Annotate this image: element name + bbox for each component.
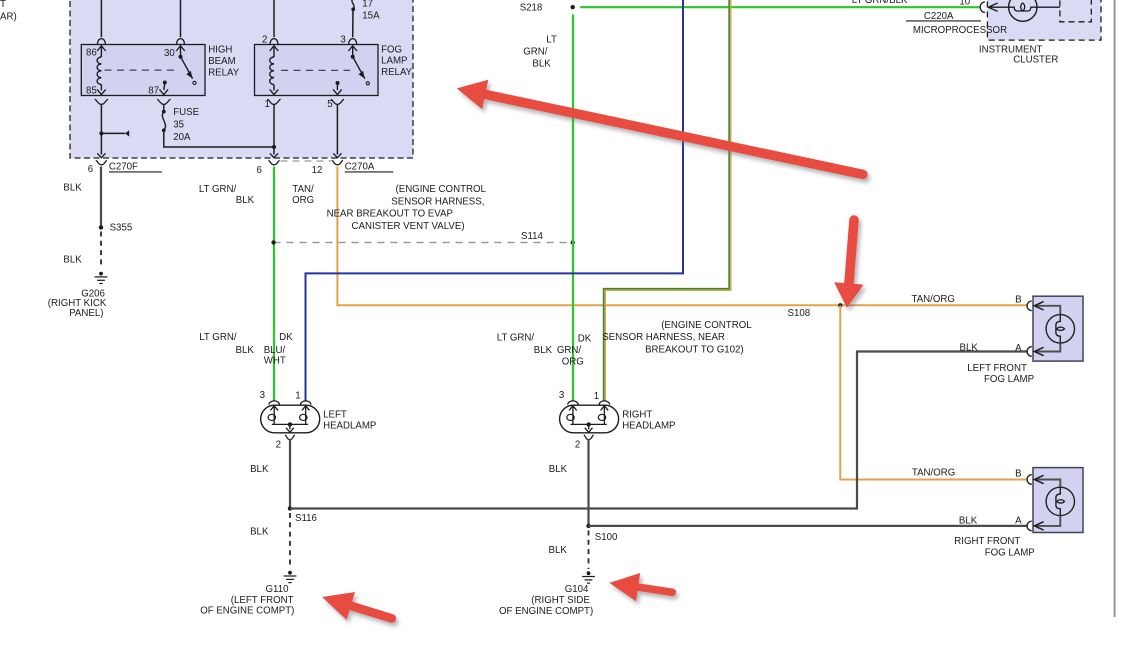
wire to relay pin 86 [100, 0, 102, 37]
svg-text:FUSE: FUSE [173, 107, 199, 118]
svg-text:OF ENGINE COMPT): OF ENGINE COMPT) [499, 606, 593, 617]
fuse 35 20A [157, 99, 170, 104]
svg-text:12: 12 [312, 165, 323, 176]
svg-text:GRN/: GRN/ [523, 47, 548, 58]
TAN/ORG wire S108 to right fog lamp [840, 305, 1028, 479]
svg-text:BLK: BLK [959, 515, 978, 526]
svg-text:BLK: BLK [960, 342, 979, 353]
svg-text:35: 35 [173, 120, 184, 131]
svg-text:S114: S114 [521, 231, 544, 242]
svg-text:BLK: BLK [236, 345, 255, 356]
annotation arrow to G110 [322, 592, 392, 620]
svg-text:B: B [1015, 468, 1021, 479]
annotation arrow to S108 [834, 220, 863, 308]
svg-text:S355: S355 [110, 223, 133, 234]
right front fog lamp [1033, 468, 1083, 533]
fog lamp relay box [255, 45, 379, 96]
svg-text:BEAM: BEAM [208, 56, 235, 67]
svg-text:C270F: C270F [109, 161, 138, 172]
svg-text:ORG: ORG [562, 356, 584, 367]
svg-text:BREAKOUT TO G102): BREAKOUT TO G102) [645, 345, 744, 356]
svg-text:LT GRN/: LT GRN/ [199, 184, 237, 195]
svg-text:BLK: BLK [532, 58, 551, 69]
svg-text:MICROPROCESSOR: MICROPROCESSOR [913, 25, 1007, 36]
BLK wire C270F to S355 to G206 [100, 167, 102, 228]
svg-text:BLK: BLK [549, 545, 568, 556]
svg-text:6: 6 [88, 164, 93, 175]
DK GRN/ORG wire to right headlamp pin 1 [604, 0, 730, 401]
svg-text:DK: DK [279, 332, 293, 343]
svg-text:30: 30 [164, 48, 175, 59]
svg-text:A: A [1015, 516, 1022, 527]
left headlamp symbol [261, 405, 320, 433]
svg-text:RIGHT FRONT: RIGHT FRONT [954, 536, 1020, 547]
svg-text:PANEL): PANEL) [69, 308, 103, 319]
svg-text:LT GRN/: LT GRN/ [497, 333, 535, 344]
junction with stub arrow [99, 131, 103, 135]
svg-text:BLK: BLK [63, 255, 82, 266]
annotation arrow to G104 [609, 573, 672, 601]
ground G110 [288, 571, 292, 575]
LT GRN/BLK wire C270A-6 to S114 to left headlamp pin 3 [273, 167, 275, 401]
svg-text:BLK: BLK [236, 195, 255, 206]
svg-text:BLU/: BLU/ [264, 345, 286, 356]
left front fog lamp [1033, 296, 1083, 361]
wire fuse 35 to fog relay pin 1 wire [164, 130, 274, 147]
splice S114 dashed link [274, 242, 573, 244]
svg-text:BLK: BLK [250, 526, 269, 537]
svg-text:(ENGINE CONTROL: (ENGINE CONTROL [661, 320, 752, 331]
fog relay pin 5 wire [331, 99, 344, 104]
DK BLU/WHT wire to left headlamp pin 1 [306, 0, 684, 401]
svg-text:2: 2 [276, 439, 281, 450]
svg-text:NEAR BREAKOUT TO EVAP: NEAR BREAKOUT TO EVAP [327, 209, 453, 220]
svg-text:BLK: BLK [63, 182, 82, 193]
wire to relay pin 2 [273, 0, 275, 37]
svg-text:2: 2 [262, 35, 267, 46]
svg-text:AR): AR) [0, 11, 17, 22]
relay mechanical link [105, 69, 179, 71]
svg-text:(ENGINE CONTROL: (ENGINE CONTROL [396, 184, 487, 195]
svg-text:1: 1 [295, 391, 300, 402]
connector C270A [268, 160, 279, 164]
svg-text:10: 10 [959, 0, 970, 7]
svg-text:20A: 20A [173, 132, 191, 143]
svg-text:GRN/: GRN/ [557, 345, 582, 356]
svg-text:CLUSTER: CLUSTER [1013, 54, 1058, 65]
svg-text:85: 85 [86, 86, 97, 97]
relay pin 85 wire to C270F [95, 99, 108, 104]
high beam relay box [81, 45, 205, 96]
LT GRN/BLK wire S218 to instrument cluster [580, 6, 981, 8]
svg-text:LT GRN/: LT GRN/ [199, 332, 237, 343]
svg-text:TAN/ORG: TAN/ORG [912, 467, 955, 478]
svg-text:LEFT FRONT: LEFT FRONT [967, 363, 1027, 374]
svg-text:OF ENGINE COMPT): OF ENGINE COMPT) [200, 605, 294, 616]
svg-text:C270A: C270A [345, 161, 375, 172]
arrow into cluster pin 10 [988, 6, 1008, 8]
svg-text:S218: S218 [520, 2, 543, 13]
wire to relay pin 30 [180, 0, 182, 37]
LT GRN/BLK wire S218 down to right headlamp pin 3 [572, 14, 574, 400]
svg-text:17: 17 [362, 0, 373, 9]
svg-text:DK: DK [578, 333, 592, 344]
svg-text:S108: S108 [788, 308, 811, 319]
svg-text:FOG LAMP: FOG LAMP [984, 374, 1034, 385]
power distribution center box [70, 0, 413, 158]
svg-text:SENSOR HARNESS, NEAR: SENSOR HARNESS, NEAR [602, 332, 725, 343]
svg-text:ORG: ORG [292, 195, 314, 206]
svg-text:A: A [1015, 343, 1022, 354]
annotation arrow to relay box [457, 80, 863, 175]
svg-text:WHT: WHT [264, 356, 286, 367]
svg-text:TAN/: TAN/ [292, 184, 314, 195]
svg-text:RIGHT: RIGHT [622, 409, 652, 420]
svg-text:TAN/ORG: TAN/ORG [912, 294, 955, 305]
ground G104 [587, 571, 591, 575]
svg-text:HIGH: HIGH [208, 45, 232, 56]
svg-text:HEADLAMP: HEADLAMP [323, 421, 376, 432]
svg-text:LAMP: LAMP [381, 56, 407, 67]
svg-text:B: B [1015, 294, 1021, 305]
svg-text:(RIGHT SIDE: (RIGHT SIDE [531, 595, 590, 606]
instrument cluster box [987, 0, 1101, 40]
svg-text:T: T [0, 0, 6, 10]
fog lamp relay switch pin 3 to 5 [348, 46, 357, 51]
svg-text:1: 1 [594, 391, 599, 402]
svg-text:G110: G110 [266, 584, 290, 595]
svg-text:BLK: BLK [534, 345, 553, 356]
svg-text:SENSOR HARNESS,: SENSOR HARNESS, [391, 196, 484, 207]
svg-text:LT: LT [546, 35, 557, 46]
microprocessor inner box [1060, 0, 1091, 22]
svg-text:RELAY: RELAY [208, 67, 240, 78]
svg-text:BLK: BLK [549, 464, 568, 475]
svg-text:LEFT: LEFT [323, 409, 347, 420]
svg-text:S116: S116 [295, 513, 317, 524]
fog relay pin 1 wire [267, 99, 280, 104]
svg-text:CANISTER VENT VALVE): CANISTER VENT VALVE) [352, 221, 465, 232]
svg-text:LT GRN/BLK: LT GRN/BLK [852, 0, 908, 6]
svg-text:RELAY: RELAY [381, 67, 413, 78]
right headlamp symbol [560, 405, 619, 433]
svg-text:FOG LAMP: FOG LAMP [985, 548, 1035, 559]
ground G206 [99, 272, 103, 276]
BLK wire left headlamp to S116 to left fog lamp [289, 439, 291, 508]
BLK wire right headlamp to S100 to right fog lamp [587, 439, 589, 526]
svg-text:87: 87 [148, 86, 159, 97]
wire bulb to microprocessor [1037, 6, 1060, 8]
svg-text:FOG: FOG [381, 44, 402, 55]
svg-text:(LEFT FRONT: (LEFT FRONT [231, 595, 294, 606]
svg-text:3: 3 [260, 390, 265, 401]
svg-text:S100: S100 [595, 532, 618, 543]
svg-text:2: 2 [575, 439, 580, 450]
connector brackets on relay tops [97, 39, 105, 44]
wire fuse 17 to relay pin 3 [352, 9, 354, 37]
svg-text:6: 6 [257, 165, 262, 176]
svg-text:15A: 15A [362, 11, 380, 22]
cluster indicator bulb [1009, 0, 1037, 21]
BLK dashed to G104 [588, 531, 590, 570]
svg-text:86: 86 [86, 48, 97, 59]
TAN/ORG wire C270A-12 down and right to fog lamps [337, 167, 1027, 306]
svg-text:BLK: BLK [250, 464, 269, 475]
frame border right [1114, 0, 1116, 617]
fuse 17 15A [352, 0, 354, 9]
svg-text:3: 3 [340, 35, 345, 46]
splice S108 [838, 303, 842, 307]
BLK dashed to G110 [289, 513, 291, 569]
svg-text:G104: G104 [565, 584, 589, 595]
svg-text:HEADLAMP: HEADLAMP [622, 421, 675, 432]
splice S218 [571, 5, 575, 9]
svg-text:3: 3 [559, 390, 564, 401]
connector C270F [96, 160, 107, 164]
high beam relay switch pin 30 to 87 [176, 46, 185, 51]
